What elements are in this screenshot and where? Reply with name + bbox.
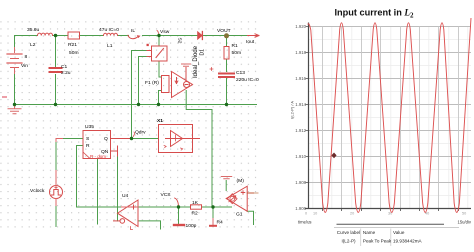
svg-text:50m: 50m (69, 50, 79, 56)
svg-text:R1: R1 (232, 43, 239, 49)
svg-text:220u IC=0: 220u IC=0 (236, 77, 259, 83)
svg-text:time/us: time/us (298, 220, 312, 225)
svg-text:35.6u: 35.6u (27, 27, 40, 33)
svg-text:1.920: 1.920 (295, 24, 306, 29)
svg-text:C1: C1 (61, 64, 68, 70)
svg-text:Ideal_Diode: Ideal_Diode (193, 45, 199, 78)
svg-text:Curve label: Curve label (337, 230, 360, 235)
svg-text:R4: R4 (217, 220, 224, 226)
svg-text:50: 50 (462, 212, 466, 216)
svg-text:C13: C13 (236, 70, 245, 76)
svg-text:F1 (R): F1 (R) (145, 80, 159, 86)
svg-text:19.938442mA: 19.938442mA (393, 239, 423, 244)
svg-text:Vsw: Vsw (160, 29, 170, 35)
svg-text:L2: L2 (30, 42, 36, 48)
svg-text:(M): (M) (237, 178, 245, 184)
svg-text:R21: R21 (68, 42, 77, 48)
svg-text:47u IC=0: 47u IC=0 (99, 27, 119, 33)
svg-text:Vin: Vin (21, 63, 28, 69)
svg-text:Qdrv: Qdrv (135, 130, 146, 136)
svg-text:D1: D1 (200, 49, 206, 56)
svg-text:Iout: Iout (246, 39, 255, 45)
svg-text:R: R (86, 143, 90, 149)
svg-text:100p: 100p (186, 223, 197, 229)
svg-text:G1: G1 (236, 212, 243, 218)
svg-text:1.918: 1.918 (295, 50, 306, 55)
svg-text:Value: Value (393, 230, 405, 235)
svg-text:I(L2-P) / A: I(L2-P) / A (290, 101, 295, 119)
svg-text:20: 20 (350, 212, 354, 216)
svg-text:Name: Name (363, 230, 376, 235)
svg-text:Vclock: Vclock (30, 188, 45, 194)
svg-text:R2: R2 (192, 211, 199, 217)
svg-text:S2: S2 (176, 38, 182, 44)
svg-text:L1: L1 (107, 43, 113, 49)
svg-text:VCS: VCS (161, 192, 172, 198)
svg-text:15u/div: 15u/div (457, 220, 471, 225)
svg-text:U4: U4 (122, 193, 129, 199)
svg-text:U35: U35 (85, 124, 94, 130)
svg-text:50m: 50m (232, 50, 242, 56)
svg-text:I(L2-P): I(L2-P) (342, 239, 357, 244)
svg-text:Q: Q (104, 136, 108, 142)
svg-text:1.906: 1.906 (295, 206, 306, 211)
svg-text:1K: 1K (192, 200, 199, 206)
svg-text:Peak To Peak: Peak To Peak (363, 239, 392, 244)
svg-text:0: 0 (305, 212, 307, 216)
svg-text:1.912: 1.912 (295, 128, 306, 133)
svg-text:VOUT: VOUT (217, 28, 231, 34)
svg-text:R - dom: R - dom (90, 154, 106, 159)
svg-text:1.914: 1.914 (295, 102, 306, 107)
svg-text:IL: IL (131, 28, 135, 34)
svg-text:1.916: 1.916 (295, 76, 306, 81)
svg-text:X1: X1 (157, 118, 163, 124)
svg-text:1.908: 1.908 (295, 180, 306, 185)
svg-text:2.2u: 2.2u (61, 70, 71, 76)
svg-text:1.910: 1.910 (295, 154, 306, 159)
svg-text:8: 8 (25, 54, 28, 60)
svg-text:10: 10 (313, 212, 317, 216)
